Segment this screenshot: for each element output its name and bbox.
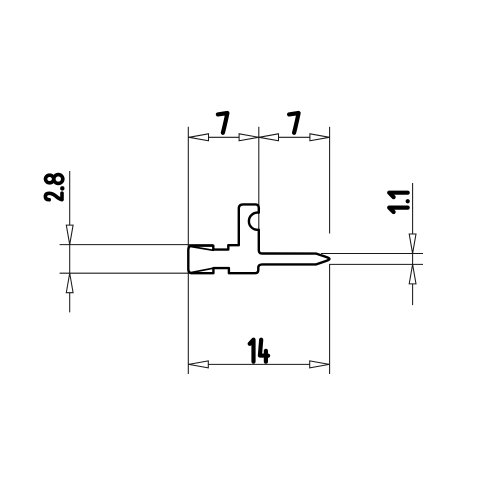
dimension text 1.1 rotated	[389, 193, 408, 212]
arrow right-lower pointing up	[409, 264, 416, 284]
arrow right-upper pointing down	[409, 234, 416, 254]
dimension text 14	[250, 340, 268, 362]
dimension text 2.8 rotated	[45, 175, 62, 200]
dimension line top (7+7) y=137.3	[188, 136, 329, 138]
arrow left-lower pointing up	[66, 273, 73, 293]
arrow bottom-left pointing left	[189, 361, 209, 368]
extension line 2.8 top horizontal y=244.6	[60, 244, 214, 246]
arrow top-middle pointing right	[239, 134, 259, 141]
arrow bottom-right pointing right	[310, 361, 330, 368]
profile outline (extrusion cross-section)	[188, 204, 329, 273]
extension line right vertical upper segment x=329.6	[329, 127, 331, 234]
dimension line right vertical (1.1) x=412.6	[412, 183, 414, 305]
arrow left-upper pointing down	[66, 225, 73, 245]
extension line middle vertical x=258.8	[258, 127, 260, 252]
arrow top-middle pointing left	[259, 134, 279, 141]
arrow top-left pointing left	[189, 134, 209, 141]
extension line left vertical x=188.3	[187, 127, 189, 374]
dimension line bottom (14) y=364.4	[188, 363, 329, 365]
extension line 1.1 bottom horizontal y=264.4	[329, 263, 423, 265]
extension line 1.1 top horizontal y=253.5	[321, 253, 423, 255]
extension line right vertical lower segment x=329.6	[329, 264, 331, 374]
jaw chamfer diagonal top	[192, 247, 214, 251]
extension line 2.8 bottom horizontal y=273.2	[60, 272, 214, 274]
arrow top-right pointing right	[310, 134, 330, 141]
dimension text 7 left	[218, 113, 228, 133]
dimension line left vertical (2.8) x=69.7	[69, 171, 71, 312]
dimension text 7 right	[289, 113, 299, 133]
jaw chamfer diagonal bottom	[192, 268, 214, 272]
